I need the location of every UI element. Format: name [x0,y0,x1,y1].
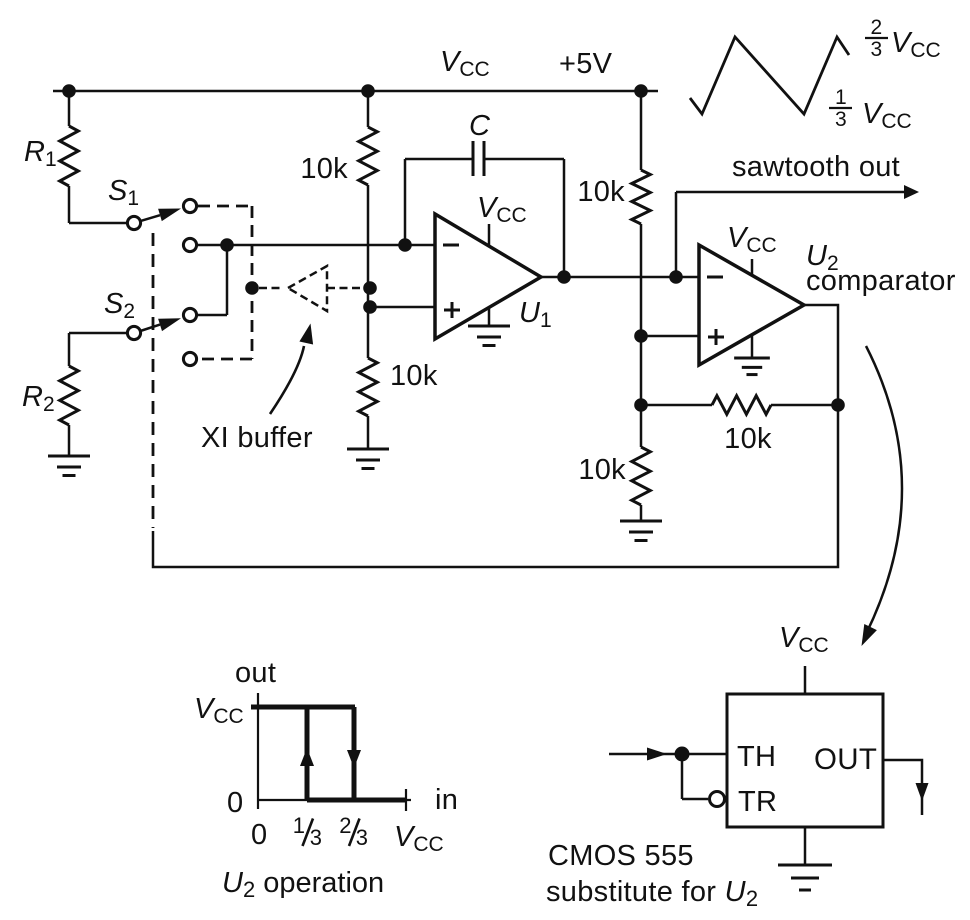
ground U2 [734,357,770,360]
wire TH input [609,753,727,756]
node feedback tap [634,398,648,412]
svg-text:3: 3 [310,825,323,850]
svg-text:out: out [235,657,276,689]
wire row3 riser [197,314,228,317]
graph VCC top line [251,705,355,710]
svg-text:C: C [469,110,491,142]
wire OUT [883,760,922,815]
U1 plus sign [444,309,460,312]
comparator U2 [699,245,804,365]
node U2 feedback node [831,398,845,412]
node top-rail 10k junction [361,84,375,98]
node sawtooth branch [669,270,683,284]
node divider buffer tap [363,281,377,295]
svg-text:+5V: +5V [559,48,613,80]
svg-text:10k: 10k [724,423,772,455]
wire bottom feedback loop [153,405,838,567]
svg-text:10k: 10k [390,360,438,392]
svg-text:0: 0 [227,787,243,819]
ground divider left [347,448,389,451]
svg-text:10k: 10k [577,176,625,208]
node row2 junction [220,238,234,252]
svg-text:3: 3 [835,108,847,131]
svg-text:3: 3 [356,825,369,850]
graph x-axis [258,799,411,801]
switch S2 [127,326,140,339]
switch S1 [127,216,140,229]
switch contact row2 [183,238,196,251]
resistor 10k divider bottom-left [359,358,378,416]
dashed selector box [198,205,252,208]
resistor 10k feedback [641,404,712,407]
U2 VCC stub [751,259,754,276]
U2 minus sign [707,276,723,279]
U1 ground stub [488,307,491,326]
graph falling edge [352,707,357,800]
svg-text:2: 2 [871,16,883,39]
dashed wire buffer input [259,287,283,290]
graph y-axis [257,693,259,809]
U1 minus sign [443,244,459,247]
node top-rail left junction [62,84,76,98]
wire U2 output [804,305,838,405]
U1 VCC stub [488,224,491,247]
svg-text:XI buffer: XI buffer [201,422,313,454]
node buffer input [245,281,259,295]
wire sawtooth out [675,192,678,277]
U2 ground stub [751,335,754,358]
resistor 10k +5V [640,91,643,170]
svg-text:CMOS 555: CMOS 555 [548,840,694,872]
ground R2 [48,455,90,458]
wire R1 to S1 [69,222,128,225]
wire cap left [405,158,473,161]
wire divider left [367,185,370,358]
node U2 plus tap [634,329,648,343]
TR inverting circle [710,792,725,807]
graph rising edge [305,707,310,800]
ground divider right [620,520,662,523]
svg-text:TR: TR [738,786,777,818]
op-amp U1 [435,214,541,339]
wire U2 plus input [641,335,699,338]
svg-text:TH: TH [737,741,776,773]
svg-text:0: 0 [251,819,267,851]
dashed wire buffer output [327,287,361,290]
wire TR jumper [681,754,684,799]
switch contact row3 [183,308,196,321]
svg-text:10k: 10k [300,153,348,185]
U2 plus sign [708,336,724,339]
node minus input [398,238,412,252]
svg-text:comparator: comparator [806,265,956,297]
node top-rail +5V junction [634,84,648,98]
wire U1 output [541,276,699,279]
resistor 10k divider top-left [367,91,370,127]
svg-text:OUT: OUT [814,743,877,776]
graph x tick VCC [405,789,407,811]
node TH junction [675,747,690,762]
switch contact row4 [183,352,196,365]
resistor 10k divider right bottom [632,447,651,505]
svg-text:in: in [435,784,458,816]
wire divider right [640,224,643,447]
ground U1 [468,325,510,328]
XI buffer dashed triangle [288,266,327,311]
capacitor C [472,141,475,176]
wire plus input U1 [370,306,435,309]
svg-text:1: 1 [293,813,306,838]
svg-text:2: 2 [339,813,352,838]
svg-text:1: 1 [835,86,847,109]
wire top VCC rail [53,90,658,93]
svg-text:substitute for U2: substitute for U2 [546,876,758,911]
resistor R2 [69,332,128,335]
waveform triangle wave [690,37,849,114]
svg-text:3: 3 [871,38,883,61]
dashed left boundary [152,233,155,528]
555 VCC stub [804,666,807,694]
resistor R1 [68,91,71,126]
node U1 output [557,270,571,284]
svg-text:sawtooth out: sawtooth out [732,151,900,183]
graph bottom line [307,798,406,803]
wire cap right [484,158,564,161]
IC CMOS 555 box [727,694,883,827]
node divider plus tap [363,300,377,314]
ground 555 [778,864,832,867]
arrow to 555 substitute [866,346,902,634]
wire row2 to minus input [197,244,436,247]
svg-text:10k: 10k [578,454,626,486]
555 ground stub [804,827,807,865]
arrow to XI buffer [270,346,304,414]
